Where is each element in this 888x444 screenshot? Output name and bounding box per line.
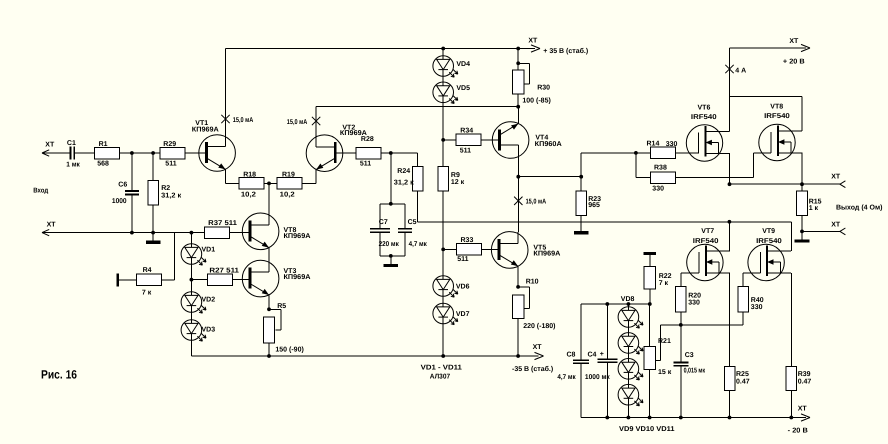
svg-text:15,0 мА: 15,0 мА — [287, 119, 308, 126]
svg-text:XT: XT — [789, 38, 799, 45]
svg-text:XT: XT — [831, 221, 841, 228]
svg-text:511: 511 — [457, 256, 468, 263]
svg-text:330: 330 — [652, 186, 664, 193]
svg-text:XT: XT — [45, 141, 55, 148]
svg-text:VT8: VT8 — [770, 103, 783, 110]
svg-text:150 (-90): 150 (-90) — [275, 346, 303, 354]
svg-text:R9: R9 — [451, 172, 460, 179]
svg-text:XT: XT — [533, 344, 543, 351]
svg-text:КП969А: КП969А — [192, 127, 219, 134]
svg-text:330: 330 — [751, 304, 763, 311]
svg-text:1000: 1000 — [112, 198, 127, 205]
svg-text:511: 511 — [165, 161, 176, 168]
svg-text:- 20 В: - 20 В — [788, 428, 808, 435]
svg-text:VT6: VT6 — [698, 104, 711, 111]
svg-text:IRF540: IRF540 — [756, 238, 782, 245]
svg-text:220 мк: 220 мк — [379, 241, 400, 248]
svg-text:VT7: VT7 — [701, 228, 714, 235]
svg-text:568: 568 — [97, 161, 109, 168]
svg-text:R39: R39 — [798, 371, 811, 378]
svg-text:511: 511 — [460, 148, 471, 155]
svg-text:220 (-180): 220 (-180) — [523, 322, 555, 330]
svg-text:C1: C1 — [67, 140, 76, 147]
svg-text:330: 330 — [688, 300, 700, 307]
svg-text:VD1: VD1 — [202, 246, 216, 253]
svg-text:VD3: VD3 — [202, 326, 216, 333]
svg-text:Вход: Вход — [33, 188, 48, 195]
svg-text:R30: R30 — [537, 84, 550, 91]
svg-text:31,2 к: 31,2 к — [161, 193, 182, 200]
svg-text:+ 20 В: + 20 В — [783, 58, 805, 65]
svg-text:VD4: VD4 — [456, 61, 470, 68]
svg-text:VD2: VD2 — [202, 297, 216, 304]
svg-text:VD1 - VD11: VD1 - VD11 — [421, 364, 462, 371]
svg-text:15,0 мА: 15,0 мА — [526, 198, 547, 205]
svg-text:IRF540: IRF540 — [764, 113, 790, 120]
svg-text:31,2 к: 31,2 к — [394, 179, 415, 186]
svg-text:330: 330 — [666, 141, 678, 148]
svg-text:965: 965 — [588, 202, 600, 209]
svg-text:IRF540: IRF540 — [691, 114, 717, 121]
svg-text:КП960А: КП960А — [535, 141, 562, 148]
svg-text:R20: R20 — [688, 293, 701, 300]
svg-text:1000 мк: 1000 мк — [585, 374, 610, 381]
svg-text:КП969А: КП969А — [284, 274, 311, 281]
svg-text:12 к: 12 к — [451, 179, 465, 186]
svg-text:-35 В (стаб.): -35 В (стаб.) — [512, 365, 553, 373]
svg-text:R14: R14 — [647, 140, 660, 147]
svg-text:R40: R40 — [751, 297, 764, 304]
svg-text:VD5: VD5 — [456, 85, 470, 92]
svg-text:R21: R21 — [658, 338, 671, 345]
svg-text:XT: XT — [47, 221, 57, 228]
svg-text:+ 35 В (стаб.): + 35 В (стаб.) — [543, 47, 588, 55]
svg-text:C4: C4 — [588, 352, 597, 359]
svg-text:R19: R19 — [282, 172, 295, 179]
svg-text:R29: R29 — [163, 141, 176, 148]
svg-text:10,2: 10,2 — [241, 191, 256, 198]
svg-text:R37 511: R37 511 — [208, 220, 237, 227]
svg-text:R38: R38 — [654, 165, 667, 172]
svg-text:7 к: 7 к — [142, 289, 152, 296]
svg-text:VD9 VD10 VD11: VD9 VD10 VD11 — [619, 426, 675, 433]
svg-text:IRF540: IRF540 — [693, 238, 719, 245]
svg-text:0,015 мк: 0,015 мк — [684, 368, 706, 375]
svg-text:R5: R5 — [277, 303, 286, 310]
svg-text:КП969А: КП969А — [533, 251, 560, 258]
svg-text:C3: C3 — [685, 352, 694, 359]
svg-text:C5: C5 — [408, 219, 417, 226]
svg-text:VT9: VT9 — [762, 228, 775, 235]
svg-text:7 к: 7 к — [659, 280, 669, 287]
svg-text:0.47: 0.47 — [798, 379, 812, 386]
svg-text:VD8: VD8 — [621, 296, 635, 303]
svg-text:R4: R4 — [143, 267, 152, 274]
svg-text:511: 511 — [360, 161, 371, 168]
svg-text:R25: R25 — [736, 371, 749, 378]
svg-text:R24: R24 — [397, 168, 410, 175]
svg-text:0.47: 0.47 — [736, 379, 750, 386]
svg-text:Рис. 16: Рис. 16 — [41, 368, 77, 382]
svg-text:R18: R18 — [243, 172, 256, 179]
svg-text:15 к: 15 к — [658, 369, 672, 376]
svg-text:C6: C6 — [118, 181, 127, 188]
svg-text:1 мк: 1 мк — [66, 162, 80, 169]
svg-text:C7: C7 — [379, 219, 388, 226]
svg-text:КП969А: КП969А — [284, 233, 311, 240]
svg-text:R28: R28 — [361, 136, 374, 143]
svg-text:XT: XT — [831, 173, 841, 180]
svg-text:VD7: VD7 — [456, 311, 470, 318]
svg-text:АЛ307: АЛ307 — [430, 374, 450, 381]
svg-text:R27 511: R27 511 — [209, 268, 239, 275]
svg-text:Выход (4 Ом): Выход (4 Ом) — [836, 203, 882, 211]
svg-text:VD6: VD6 — [456, 284, 470, 291]
svg-text:XT: XT — [798, 406, 808, 413]
svg-text:1 к: 1 к — [809, 205, 819, 212]
svg-text:XT: XT — [528, 38, 538, 45]
svg-text:R2: R2 — [161, 185, 170, 192]
svg-text:R33: R33 — [461, 237, 474, 244]
svg-text:100 (-85): 100 (-85) — [522, 96, 550, 104]
svg-text:+: + — [600, 351, 604, 358]
svg-text:15,0 мА: 15,0 мА — [233, 117, 254, 124]
svg-text:R10: R10 — [526, 278, 539, 285]
svg-text:R1: R1 — [99, 141, 108, 148]
svg-text:4 А: 4 А — [735, 67, 746, 74]
svg-text:R34: R34 — [460, 127, 473, 134]
svg-text:4,7 мк: 4,7 мк — [557, 374, 576, 381]
svg-text:4,7 мк: 4,7 мк — [409, 241, 428, 248]
svg-text:10,2: 10,2 — [280, 191, 295, 198]
svg-text:C8: C8 — [567, 352, 576, 359]
